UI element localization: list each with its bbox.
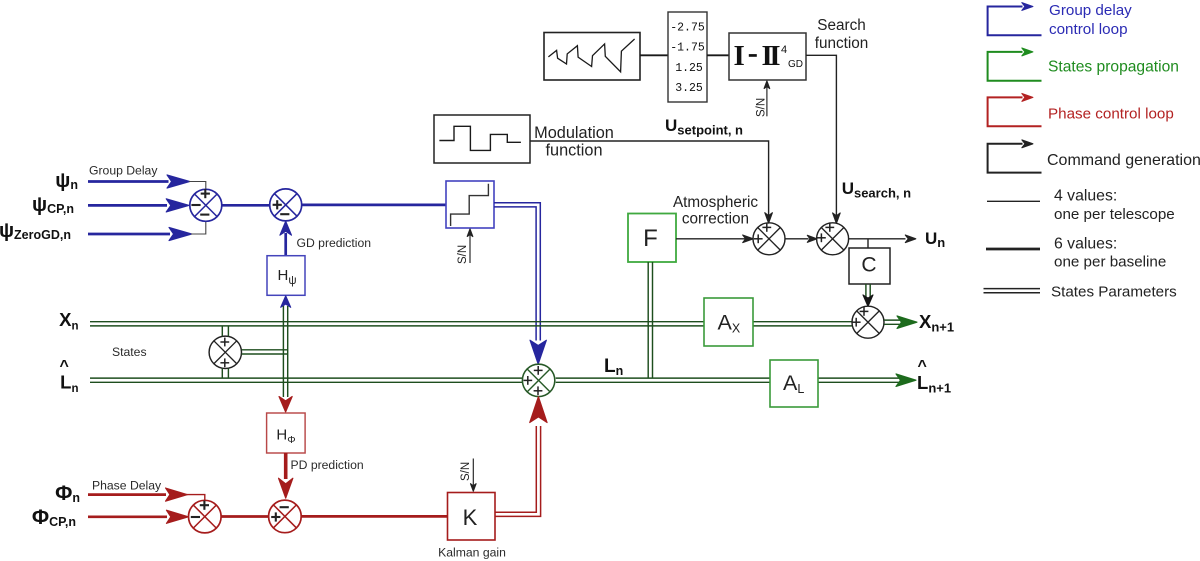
svg-text:Search: Search [817, 17, 865, 34]
block modulation waveform [434, 115, 530, 163]
svg-text:1.25: 1.25 [675, 62, 703, 75]
block H_psi (GD model) [267, 256, 305, 296]
wire arrow modulation/U_setpoint down to S4 [530, 141, 772, 223]
legend label: 4 values one per telescope [1054, 188, 1175, 223]
svg-text:S/N: S/N [756, 98, 768, 117]
wire connector psi_ZeroGD,n to summator S1 bottom [191, 221, 206, 234]
wire L state double line (A_L to output) [818, 378, 899, 382]
block A_L (state transition L) [770, 360, 818, 407]
node label L_n hat [60, 358, 79, 395]
svg-text:Group delay: Group delay [1049, 2, 1132, 19]
summator S4 atmospheric correction (+ +) [753, 223, 785, 255]
svg-text:States propagation: States propagation [1048, 59, 1179, 76]
svg-text:4 values:: 4 values: [1054, 188, 1117, 205]
wire double connector S3 to L line [222, 368, 228, 378]
blue arrowhead into central summator (GD correction) [530, 340, 546, 364]
sawtooth curve [548, 39, 634, 72]
block H_Phi (phase model) [267, 413, 306, 453]
legend label: States propagation [1048, 59, 1179, 76]
node label X_n+1 [919, 311, 954, 335]
red arrowhead into central summator (phase correction) [530, 397, 547, 423]
S/N arrow into saturation box [467, 229, 473, 263]
block sawtooth search waveform [544, 33, 640, 81]
node label Phi_n input [55, 482, 80, 505]
wire arrow Phi_CP,n (red) [88, 510, 188, 523]
text label: States [112, 345, 147, 359]
wire arrow Phi_n (red) [88, 488, 188, 501]
svg-text:S/N: S/N [457, 245, 469, 264]
wire S2 to saturation block (blue) [302, 204, 446, 207]
text label: Phase Delay [92, 479, 162, 493]
text label: Search function [815, 17, 869, 52]
svg-text:Kalman gain: Kalman gain [438, 546, 506, 560]
svg-text:I: I [734, 40, 745, 72]
legend label: 6 values one per baseline [1054, 235, 1166, 270]
svg-text:^: ^ [60, 358, 69, 375]
legend symbol: 4-values thin line [987, 200, 1040, 202]
legend label: Command generation [1047, 152, 1200, 169]
legend label: States Parameters [1051, 284, 1177, 301]
wire junction drop from U_n line into C block [867, 239, 869, 248]
svg-text:C: C [861, 254, 876, 277]
summator S9 phase minus prediction (- +) [269, 500, 302, 533]
summator S2 (GD minus prediction, + -) [270, 189, 302, 221]
wire sawtooth to values table [640, 54, 668, 56]
text label: GD prediction [297, 236, 372, 250]
node label Phi_CP,n input [32, 506, 76, 529]
summator S7 central OPD combiner (+ + +) [522, 364, 554, 396]
svg-text:GD: GD [788, 59, 803, 70]
S/N arrow into K block [471, 459, 477, 492]
node label U_setpoint,n [665, 116, 743, 138]
wire double states output of S3 to vertical branch [242, 350, 288, 354]
svg-text:-1.75: -1.75 [670, 42, 705, 55]
wire L_n state double line (left segment) [90, 378, 523, 382]
svg-text:Command generation: Command generation [1047, 152, 1200, 169]
svg-text:one per baseline: one per baseline [1054, 254, 1166, 271]
S/N arrow into I-II block [764, 81, 770, 116]
wire connector psi_n to summator S1 top [189, 182, 206, 190]
legend label: Group delay control loop [1049, 2, 1132, 38]
wire arrow F to atmospheric summator S4 [676, 235, 753, 243]
wire double X_n+1 output with green arrow [884, 316, 917, 329]
block values table (-2.75 -1.75 1.25 3.25) [668, 12, 707, 102]
text label S/N (rotated) at saturation box [457, 245, 469, 264]
text label: Modulation function [534, 124, 614, 160]
blue arrowhead states-line into H_psi bottom [281, 296, 291, 308]
wire arrow S5 to U_n output [849, 235, 916, 243]
svg-text:Group Delay: Group Delay [89, 163, 158, 177]
legend symbol: states parameters double line [984, 289, 1041, 293]
wire L state double line (central summator to F junction and A_L) [556, 378, 770, 382]
node label psi_n input [55, 170, 78, 192]
legend symbol: states propagation (green) [988, 48, 1042, 81]
wire X_n state double line (left of A_X) [90, 322, 704, 326]
summator S8 phase input (+ -) [189, 500, 222, 533]
legend symbol: group delay control loop (blue) [988, 3, 1042, 36]
wire values table to I-II block [707, 54, 729, 56]
svg-text:one per telescope: one per telescope [1054, 206, 1175, 223]
square wave curve [439, 126, 521, 150]
node label X_n [59, 309, 78, 333]
svg-text:-2.75: -2.75 [670, 22, 705, 35]
block K (Kalman gain) [448, 493, 496, 541]
node label L_n+1 hat [917, 358, 951, 396]
svg-text:Atmospheric: Atmospheric [673, 194, 758, 211]
wire S9 to K block (red) [301, 515, 447, 518]
wire S1 to S2 (blue) [222, 204, 270, 207]
wire arrow psi_ZeroGD,n (6-value blue) [88, 227, 192, 240]
wire double red from K up to central summator (inner) [495, 426, 536, 512]
text label: Kalman gain [438, 546, 506, 560]
svg-text:Modulation: Modulation [534, 124, 614, 142]
wire arrow PD prediction from H_Phi to S9 (red) [279, 453, 293, 498]
wire S8 to S9 (red) [221, 515, 269, 518]
svg-text:K: K [463, 505, 478, 530]
summator S3 states combiner (+ +) [209, 336, 241, 368]
wire arrow GD prediction from H_psi to S2 (blue) [280, 221, 292, 255]
node label U_search,n [842, 179, 911, 201]
legend label: Phase control loop [1048, 106, 1174, 123]
node label psi_CP,n input [32, 194, 74, 216]
svg-text:Phase Delay: Phase Delay [92, 479, 162, 493]
legend symbol: 6-values thick line [986, 248, 1040, 251]
text label: PD prediction [291, 458, 364, 472]
block C (command to states feedback) [849, 248, 890, 284]
staircase curve inside saturation box [451, 184, 489, 226]
text label: Group Delay [89, 163, 158, 177]
node label psi_ZeroGD,n input [0, 220, 71, 242]
black arrowhead C output into S6 [863, 295, 873, 307]
svg-text:States: States [112, 345, 147, 359]
summator S6 X-state update (+ +) [852, 306, 884, 338]
svg-text:Phase control loop: Phase control loop [1048, 106, 1174, 123]
svg-text:function: function [545, 141, 602, 159]
svg-text:States Parameters: States Parameters [1051, 284, 1177, 301]
svg-text:S/N: S/N [460, 462, 472, 481]
text label S/N (rotated) at K block [460, 462, 472, 481]
red arrowhead states-line into H_Phi top [279, 397, 292, 413]
svg-text:GD prediction: GD prediction [297, 236, 372, 250]
svg-text:4: 4 [781, 44, 787, 56]
wire double states from F down to L line [648, 262, 652, 378]
summator S1 (GD input, + - -) [190, 189, 222, 221]
svg-text:3.25: 3.25 [675, 82, 703, 95]
wire arrow S4 to S5 [785, 235, 817, 242]
svg-text:PD prediction: PD prediction [291, 458, 364, 472]
wire vertical states double line (to H_psi up, to H_Phi down) [283, 306, 287, 397]
svg-text:correction: correction [682, 211, 749, 228]
summator S5 command combiner (+ +) [817, 223, 849, 255]
svg-text:F: F [643, 225, 658, 252]
wire double L_n+1 output with green arrow [896, 374, 916, 387]
svg-text:6 values:: 6 values: [1054, 235, 1117, 252]
wire double connector X line to S3 [222, 326, 228, 336]
wire arrow psi_n (6-value blue) [88, 175, 190, 188]
legend symbol: command generation (black) [988, 140, 1042, 173]
wire arrow search function down to S5 (U_search) [806, 55, 840, 223]
block A_X (state transition X) [704, 298, 753, 346]
wire double blue from saturation to central summator (lower/inner) [494, 207, 536, 341]
wire double red from K up to central summator (outer) [495, 426, 541, 516]
wire double from C down to summator S6 [866, 284, 870, 297]
text label S/N (rotated) at I-II block [756, 98, 768, 117]
node label L_n (estimated OPD) [604, 356, 623, 378]
node label U_n [925, 229, 945, 250]
svg-text:control loop: control loop [1049, 21, 1128, 38]
wire double blue from saturation to central summator (upper/outer) [494, 203, 540, 341]
wire X state double line (A_X to summator) [753, 322, 853, 326]
svg-text:function: function [815, 35, 869, 52]
wire connector Phi_n to summator S8 top [187, 495, 205, 501]
block I minus II^4 GD (search controller) [729, 33, 806, 80]
block: GD saturation/staircase box [446, 181, 494, 228]
legend symbol: phase control loop (red) [988, 94, 1042, 127]
text label: Atmospheric correction [673, 194, 758, 228]
wire arrow psi_CP,n (6-value blue) [88, 199, 189, 212]
block F (fringe / atmospheric model) [628, 214, 676, 263]
svg-text:^: ^ [918, 358, 927, 375]
